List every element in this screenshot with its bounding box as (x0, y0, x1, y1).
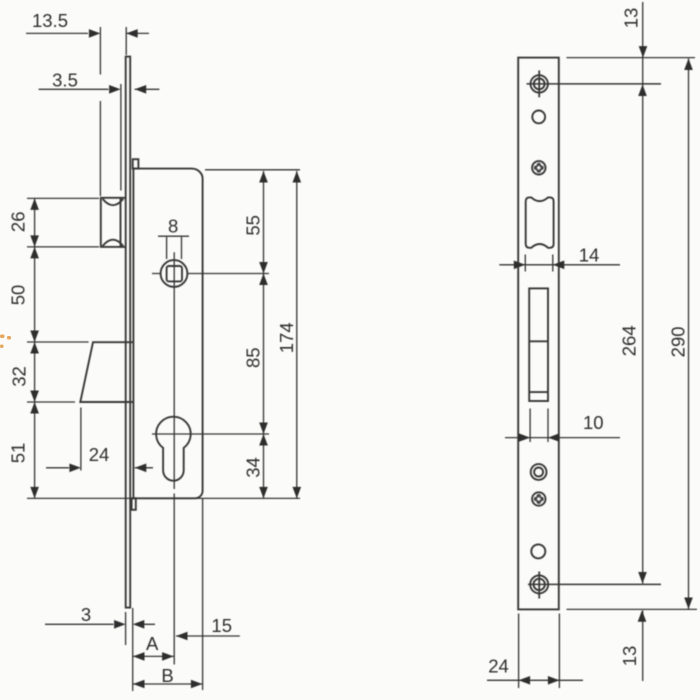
spindle square hole 8mm (167, 266, 182, 281)
arrows dim 13.5 (89, 29, 101, 38)
dim 3 lines (45, 608, 155, 691)
dim 10 lines (505, 409, 620, 443)
svg-text:14: 14 (579, 245, 600, 266)
arrows dim B (133, 680, 145, 689)
roller face lines to plate (121, 198, 126, 247)
right dim column 174 (296, 171, 298, 498)
small screw lower phillips petals (534, 494, 544, 504)
cutout divider line (529, 340, 548, 342)
dim 8 spindle lines (158, 236, 189, 259)
svg-text:55: 55 (242, 215, 263, 236)
case top extension (205, 169, 300, 171)
ring hole inner (534, 468, 543, 477)
svg-text:3: 3 (81, 604, 91, 625)
dim 290 line (688, 59, 690, 610)
latch cutout window (529, 288, 548, 401)
dim 13 bottom line (642, 611, 644, 682)
arrows dim 290 (684, 59, 693, 71)
svg-text:B: B (161, 665, 173, 686)
svg-text:24: 24 (488, 656, 509, 677)
small screw lower white center (537, 497, 541, 501)
bottom fixing lug (132, 498, 136, 510)
centerline horizontal cylinder (152, 433, 269, 435)
arrows column 55/85/34 (259, 171, 268, 183)
arrows left column 26/50/32/51 (30, 198, 39, 210)
svg-text:51: 51 (7, 443, 28, 464)
svg-text:13.5: 13.5 (32, 10, 68, 31)
left dim column line (34, 198, 36, 498)
ring hole (531, 464, 547, 480)
svg-text:85: 85 (242, 347, 263, 368)
bottom screw crosshair vertical (538, 572, 540, 599)
cutout lower band line (529, 391, 548, 393)
arrow dim 13 top (639, 46, 648, 58)
dim A line (133, 655, 174, 657)
centerline vertical through spindle and cylinder (173, 252, 175, 664)
dim B line (133, 498, 203, 690)
svg-text:13: 13 (619, 646, 640, 667)
arrows dim 3 (114, 620, 126, 629)
bottom screw inner circle (534, 579, 545, 590)
bottom screw outer circle (530, 575, 548, 593)
svg-text:13: 13 (621, 8, 642, 29)
small screw upper (45deg phillips) (532, 161, 545, 174)
faceplate strip (side view, 3.5 thick) (126, 57, 131, 608)
arrows dim 14 (514, 261, 526, 270)
top screw outer circle (531, 75, 548, 92)
dim 24 (cylinder offset) lines (46, 408, 153, 471)
plain hole upper (532, 111, 545, 124)
bottom screw center extension (528, 583, 661, 585)
right dim column 55/85/34 (263, 171, 265, 498)
svg-text:32: 32 (9, 366, 30, 387)
spindle follower circle (161, 260, 188, 287)
arrow dim 15 (176, 632, 188, 641)
svg-text:24: 24 (89, 444, 110, 465)
arrows dim 3.5 (109, 85, 121, 94)
dim 13.5 lines (26, 27, 149, 196)
arrows dim A (133, 652, 145, 661)
small screw upper phillips petals (534, 163, 544, 173)
top screw inner circle (534, 79, 545, 90)
roller concave arc bottom (103, 240, 124, 246)
svg-text:10: 10 (583, 412, 604, 433)
small screw upper white center (537, 166, 541, 170)
roller (front view) (526, 197, 554, 247)
roller concave arc top (103, 199, 124, 205)
arrows dim 264 (638, 85, 647, 97)
dim 3.5 lines (39, 84, 160, 191)
dim 13 top line (567, 2, 696, 584)
svg-text:50: 50 (7, 285, 28, 306)
scan artifact specks (left edge) (0, 335, 11, 349)
top screw center extension (527, 83, 662, 85)
left extension lines (roller top/bottom, latch top/bottom, case bottom) (27, 198, 300, 498)
top screw crosshair vertical (538, 70, 540, 97)
svg-text:34: 34 (242, 457, 263, 478)
svg-text:8: 8 (168, 216, 178, 237)
latch bolt (trapezoid, side view) (80, 342, 134, 402)
arrows dim 24 (69, 464, 81, 473)
svg-text:174: 174 (276, 322, 297, 353)
svg-text:264: 264 (619, 325, 640, 356)
svg-text:15: 15 (211, 615, 232, 636)
plain hole lower (531, 544, 545, 558)
svg-text:290: 290 (668, 326, 689, 357)
svg-text:26: 26 (7, 212, 28, 233)
lock case (side view) (133, 169, 202, 499)
arrows dim 24 bottom (519, 676, 531, 685)
arrows column 174 (293, 171, 302, 183)
small screw lower (532, 492, 545, 505)
dim 14 lines (499, 255, 620, 272)
euro cylinder profile (156, 417, 191, 481)
arrows dim 10 (519, 433, 531, 442)
dim 15 line (176, 635, 240, 637)
dim 24 bottom lines (487, 614, 583, 689)
top fixing lug (133, 159, 139, 168)
faceplate (front view) (518, 58, 559, 610)
svg-text:A: A (146, 633, 159, 654)
faceplate bottom extension (567, 608, 698, 610)
arrow dim 13 bottom (638, 610, 647, 622)
centerline horizontal spindle (152, 273, 269, 275)
roller latch (side view) (101, 198, 121, 247)
svg-text:3.5: 3.5 (52, 70, 78, 91)
